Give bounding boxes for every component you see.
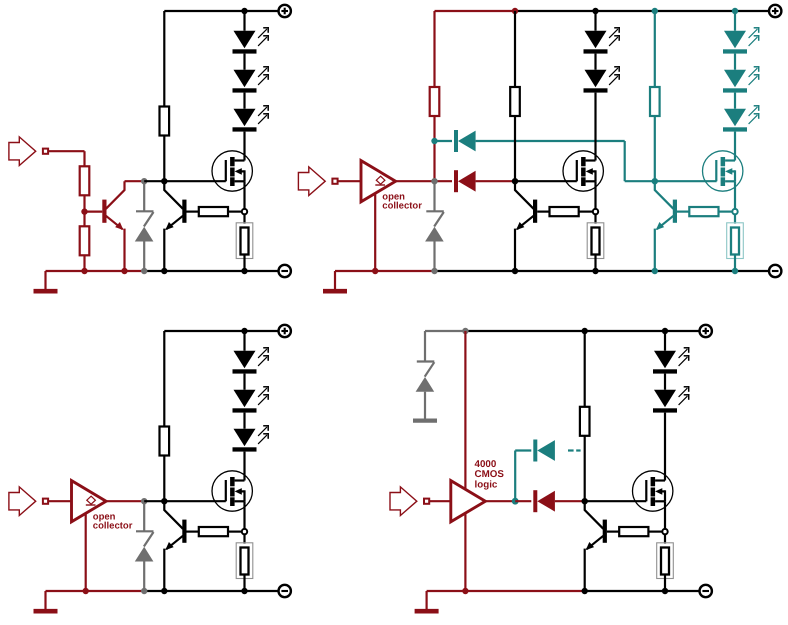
svg-text:logic: logic: [475, 480, 498, 491]
svg-text:collector: collector: [93, 520, 133, 531]
svg-text:collector: collector: [382, 200, 422, 211]
